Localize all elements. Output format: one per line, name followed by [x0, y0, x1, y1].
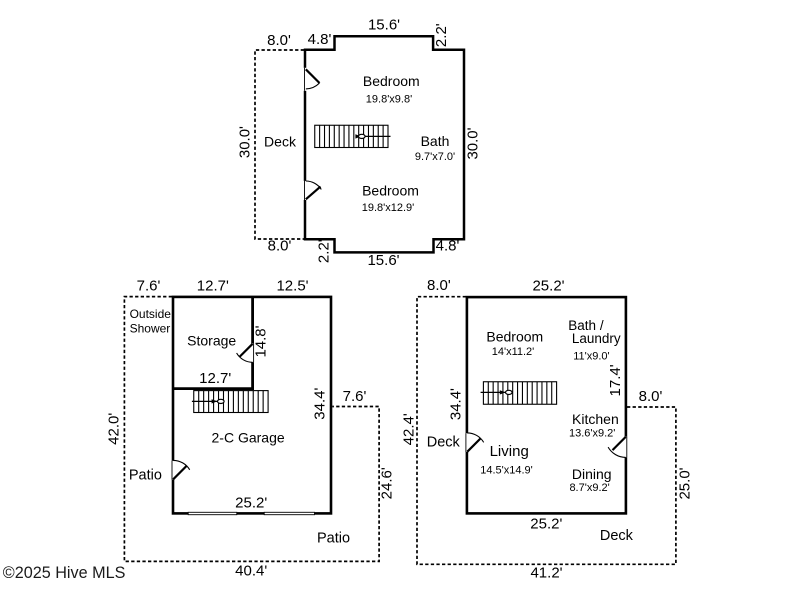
garage door opening right	[264, 512, 315, 515]
upper stairs direction arrow	[355, 134, 390, 138]
svg-text:13.6'x9.2': 13.6'x9.2'	[569, 428, 615, 440]
svg-text:9.7'x7.0': 9.7'x7.0'	[415, 151, 455, 163]
svg-text:Dining: Dining	[572, 466, 612, 482]
svg-text:15.6': 15.6'	[367, 252, 399, 269]
svg-text:34.4': 34.4'	[312, 388, 329, 420]
main stairs	[483, 382, 556, 405]
svg-text:30.0': 30.0'	[464, 127, 481, 159]
garage patio door	[171, 460, 190, 479]
upper stairs	[315, 125, 388, 147]
svg-text:Patio: Patio	[317, 530, 350, 546]
svg-text:4.8': 4.8'	[308, 31, 332, 48]
svg-text:42.4': 42.4'	[400, 413, 417, 445]
garage stairs	[194, 391, 268, 413]
svg-text:Bedroom: Bedroom	[363, 73, 420, 89]
svg-text:Shower: Shower	[130, 322, 171, 336]
main deck dashed outline	[417, 297, 676, 565]
svg-text:Outside: Outside	[130, 307, 172, 321]
svg-text:40.4': 40.4'	[235, 562, 267, 579]
svg-text:24.6': 24.6'	[378, 467, 395, 499]
svg-text:25.2': 25.2'	[235, 495, 267, 512]
svg-text:©2025 Hive MLS: ©2025 Hive MLS	[3, 564, 126, 582]
svg-text:4.8': 4.8'	[436, 237, 460, 254]
storage interior walls	[173, 297, 253, 389]
svg-text:2.2': 2.2'	[433, 23, 450, 47]
door upper-left bedroom	[303, 68, 320, 91]
svg-text:8.7'x9.2': 8.7'x9.2'	[569, 482, 609, 494]
svg-text:14.8': 14.8'	[252, 325, 269, 357]
svg-text:8.0': 8.0'	[639, 388, 663, 405]
svg-text:Bedroom: Bedroom	[486, 329, 543, 345]
svg-text:42.0': 42.0'	[105, 413, 122, 445]
living deck door	[465, 433, 484, 452]
svg-text:25.0': 25.0'	[676, 467, 693, 499]
svg-text:Storage: Storage	[187, 333, 236, 349]
upper floor wall outline	[305, 36, 464, 252]
svg-text:12.5': 12.5'	[276, 278, 308, 295]
svg-text:19.8'x9.8': 19.8'x9.8'	[366, 93, 412, 105]
svg-text:12.7': 12.7'	[199, 370, 231, 387]
svg-text:15.6': 15.6'	[368, 17, 400, 34]
svg-text:Deck: Deck	[427, 435, 461, 451]
svg-text:Laundry: Laundry	[572, 331, 621, 346]
storage door	[237, 343, 255, 362]
svg-text:12.7': 12.7'	[197, 278, 229, 295]
svg-text:Bedroom: Bedroom	[362, 183, 419, 199]
door lower-left bedroom	[303, 181, 322, 200]
main stairs direction arrow	[481, 390, 512, 394]
garage patio dashed outline	[124, 297, 379, 562]
svg-text:17.4': 17.4'	[607, 364, 624, 396]
svg-text:Patio: Patio	[129, 467, 162, 483]
garage stairs direction arrow	[192, 399, 224, 403]
main floor wall outline	[467, 297, 626, 513]
svg-text:11'x9.0': 11'x9.0'	[573, 350, 609, 362]
svg-text:14.5'x14.9': 14.5'x14.9'	[480, 465, 533, 477]
svg-text:25.2': 25.2'	[530, 515, 562, 532]
svg-text:19.8'x12.9': 19.8'x12.9'	[362, 202, 415, 214]
garage wall outline	[173, 297, 331, 514]
svg-text:7.6': 7.6'	[137, 278, 161, 295]
svg-text:2.2': 2.2'	[315, 239, 332, 263]
svg-text:7.6': 7.6'	[343, 388, 367, 405]
svg-text:2-C Garage: 2-C Garage	[212, 430, 285, 446]
svg-text:Bath: Bath	[421, 133, 450, 149]
svg-text:Kitchen: Kitchen	[572, 411, 619, 427]
svg-text:Deck: Deck	[600, 528, 634, 544]
garage door opening left	[188, 512, 237, 515]
svg-text:25.2': 25.2'	[532, 278, 564, 295]
svg-text:8.0': 8.0'	[427, 277, 451, 294]
svg-text:14'x11.2': 14'x11.2'	[492, 346, 535, 358]
svg-text:41.2': 41.2'	[530, 565, 562, 582]
svg-text:Deck: Deck	[264, 133, 297, 149]
upper deck dashed outline	[255, 50, 304, 239]
svg-text:30.0': 30.0'	[237, 126, 254, 158]
dining deck door	[608, 437, 628, 458]
svg-text:8.0': 8.0'	[268, 237, 292, 254]
svg-text:34.4': 34.4'	[448, 388, 465, 420]
svg-text:Living: Living	[490, 443, 529, 460]
svg-text:8.0': 8.0'	[267, 32, 291, 49]
